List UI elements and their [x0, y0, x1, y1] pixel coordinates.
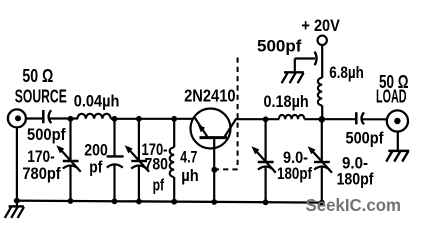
svg-text:pf: pf: [89, 158, 102, 176]
ground at bypass: [282, 59, 304, 84]
svg-text:50 Ω: 50 Ω: [22, 66, 53, 86]
wire source down to ground rail: [16, 127, 18, 201]
junction base/shield: [211, 167, 217, 173]
collector of Q1: [224, 120, 236, 138]
ground at source: [5, 201, 24, 218]
svg-text:0.04µh: 0.04µh: [74, 92, 120, 110]
inductor L4 6.8uh choke: [318, 78, 322, 106]
shield dashed line: [211, 58, 237, 173]
variable capacitor C4 170-780pf: [125, 119, 149, 202]
variable capacitor C7 9.0-180pf: [308, 119, 332, 202]
wire C1 to node A: [50, 117, 79, 119]
rail junction C4: [136, 199, 142, 205]
rail junction C2: [68, 198, 74, 204]
svg-text:SeekIC.com: SeekIC.com: [306, 195, 402, 215]
rail junction base: [211, 199, 217, 205]
svg-text:pf: pf: [153, 176, 165, 194]
svg-text:500pf: 500pf: [257, 37, 302, 55]
node F junction: [319, 116, 326, 123]
svg-text:170-: 170-: [27, 148, 55, 166]
svg-text:µh: µh: [181, 167, 199, 185]
wire terminal to L4: [321, 45, 323, 78]
wire collector to L3: [235, 118, 279, 120]
svg-text:500pf: 500pf: [346, 130, 384, 148]
svg-text:0.18µh: 0.18µh: [264, 93, 309, 111]
capacitor C8 500pf output coupling: [356, 112, 364, 124]
power terminal +20V: [318, 36, 327, 45]
base lead down to ground rail: [213, 138, 215, 202]
transistor Q1 2N2410: [191, 109, 236, 202]
svg-text:4.7: 4.7: [180, 149, 197, 167]
ground at load: [386, 132, 409, 162]
wire source to C1: [26, 117, 43, 119]
node E junction: [263, 116, 269, 122]
inductor L3 0.18uh: [279, 115, 305, 119]
wire L1 to transistor base rail: [111, 118, 193, 120]
wire L3 to node F: [304, 118, 356, 120]
inductor L1 0.04uh: [78, 114, 111, 119]
emitter of Q1 with arrow: [194, 117, 208, 137]
svg-text:200: 200: [84, 142, 108, 160]
rail junction C3: [112, 198, 118, 204]
rail junction L2: [171, 199, 177, 205]
node C junction: [136, 116, 142, 122]
capacitor C1 500pf input coupling: [43, 110, 51, 123]
svg-text:2N2410: 2N2410: [184, 86, 236, 106]
capacitor C3 200pf: [107, 119, 124, 202]
node A junction: [68, 116, 74, 122]
connector J1 50 ohm SOURCE: [8, 109, 26, 127]
inductor L2 4.7uh: [170, 119, 175, 202]
wire L4 to node F: [321, 105, 323, 119]
rail junction at source: [14, 198, 20, 204]
svg-text:LOAD: LOAD: [376, 87, 407, 107]
variable capacitor C2 170-780pf: [56, 119, 80, 202]
node D junction: [171, 116, 177, 122]
svg-text:180pf: 180pf: [277, 165, 312, 183]
svg-text:SOURCE: SOURCE: [15, 86, 67, 106]
rail junction C6: [263, 199, 269, 205]
svg-text:6.8µh: 6.8µh: [329, 64, 364, 82]
base bar of Q1: [200, 136, 228, 139]
svg-text:780pf: 780pf: [22, 165, 61, 183]
connector J2 50 ohm LOAD: [387, 110, 408, 131]
variable capacitor C6 9.0-180pf: [251, 119, 275, 202]
svg-text:180pf: 180pf: [337, 171, 374, 189]
svg-text:500pf: 500pf: [27, 126, 66, 144]
capacitor C5 500pf bypass: [295, 52, 317, 66]
wire C8 to load: [363, 118, 388, 120]
rail junction C7: [319, 200, 325, 206]
node B junction: [112, 116, 118, 122]
svg-text:+ 20V: + 20V: [301, 17, 340, 35]
svg-text:780: 780: [145, 155, 169, 173]
ground rail wire: [14, 201, 323, 203]
